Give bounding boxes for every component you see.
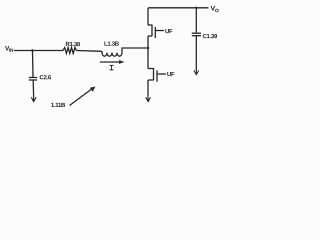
transistor Q2 channel bar bbox=[153, 68, 155, 80]
junction node at input capacitor branch bbox=[31, 49, 33, 51]
transistor Q1 gate bar bbox=[154, 27, 156, 38]
capacitor C1.39 plates bbox=[192, 32, 201, 34]
label C1.39 bbox=[202, 34, 217, 40]
wire input node down to capacitor C2.6 bbox=[32, 51, 35, 78]
transistor Q2 low-side MOSFET (drain jog) bbox=[148, 68, 154, 70]
wire capacitor C1.39 to ground bbox=[195, 36, 197, 71]
label L1.38 bbox=[104, 42, 120, 48]
transistor Q1 source lead to switch node bbox=[147, 36, 149, 48]
wire capacitor C2.6 to ground bbox=[32, 80, 34, 96]
ground arrow below C2.6 bbox=[31, 96, 36, 102]
svg-text:UF: UF bbox=[165, 29, 173, 35]
annotation leader arrow bbox=[70, 90, 92, 106]
svg-text:R1.38: R1.38 bbox=[65, 42, 80, 48]
transistor Q1 source jog bbox=[148, 35, 152, 37]
svg-text:1.11B: 1.11B bbox=[51, 103, 66, 109]
transistor Q1 channel bar bbox=[151, 25, 153, 37]
svg-text:VO: VO bbox=[210, 6, 218, 15]
transistor Q2 gate bar bbox=[156, 70, 158, 81]
label UF (Q1) bbox=[165, 29, 173, 35]
transistor Q1 high-side MOSFET (drain lead) bbox=[147, 8, 149, 25]
wire from resistor to inductor bbox=[77, 50, 103, 53]
capacitor C2.6 plates bbox=[29, 77, 37, 79]
transistor Q1 drain jog bbox=[148, 24, 152, 26]
node VIN label bbox=[5, 46, 14, 54]
junction dot switch node bbox=[147, 47, 149, 49]
transistor Q1 gate lead bbox=[155, 30, 164, 32]
current arrow I under inductor bbox=[100, 61, 120, 63]
transistor Q2 source lead bbox=[147, 80, 149, 96]
label UF (Q2) bbox=[167, 72, 175, 78]
ground arrow below C1.39 bbox=[194, 70, 199, 74]
inductor L1.38 bbox=[102, 51, 122, 56]
wire switch node down to low-side MOSFET bbox=[147, 48, 149, 69]
ground arrow below Q2 bbox=[146, 96, 151, 102]
annotation 1.11B leader text bbox=[51, 103, 66, 109]
wire VO rail down to capacitor C1.39 bbox=[195, 8, 197, 33]
transistor Q2 gate lead bbox=[157, 73, 166, 75]
label R1.38 bbox=[65, 42, 80, 48]
svg-text:C1.39: C1.39 bbox=[202, 34, 217, 40]
svg-text:L1.3B: L1.3B bbox=[104, 42, 120, 48]
label C2.6 bbox=[39, 75, 51, 81]
svg-text:VIN: VIN bbox=[5, 46, 14, 54]
top rail wire to VO bbox=[148, 7, 209, 9]
node VO label bbox=[210, 6, 218, 15]
svg-text:UF: UF bbox=[167, 72, 175, 78]
svg-text:C2.6: C2.6 bbox=[39, 75, 51, 81]
junction dot on VO rail bbox=[195, 7, 197, 9]
wire from VIN to resistor R1.38 bbox=[14, 50, 63, 52]
resistor R1.38 bbox=[63, 48, 76, 54]
wire from inductor to switch node bbox=[122, 48, 148, 53]
label I bbox=[110, 65, 114, 70]
transistor Q2 source jog bbox=[148, 79, 154, 81]
